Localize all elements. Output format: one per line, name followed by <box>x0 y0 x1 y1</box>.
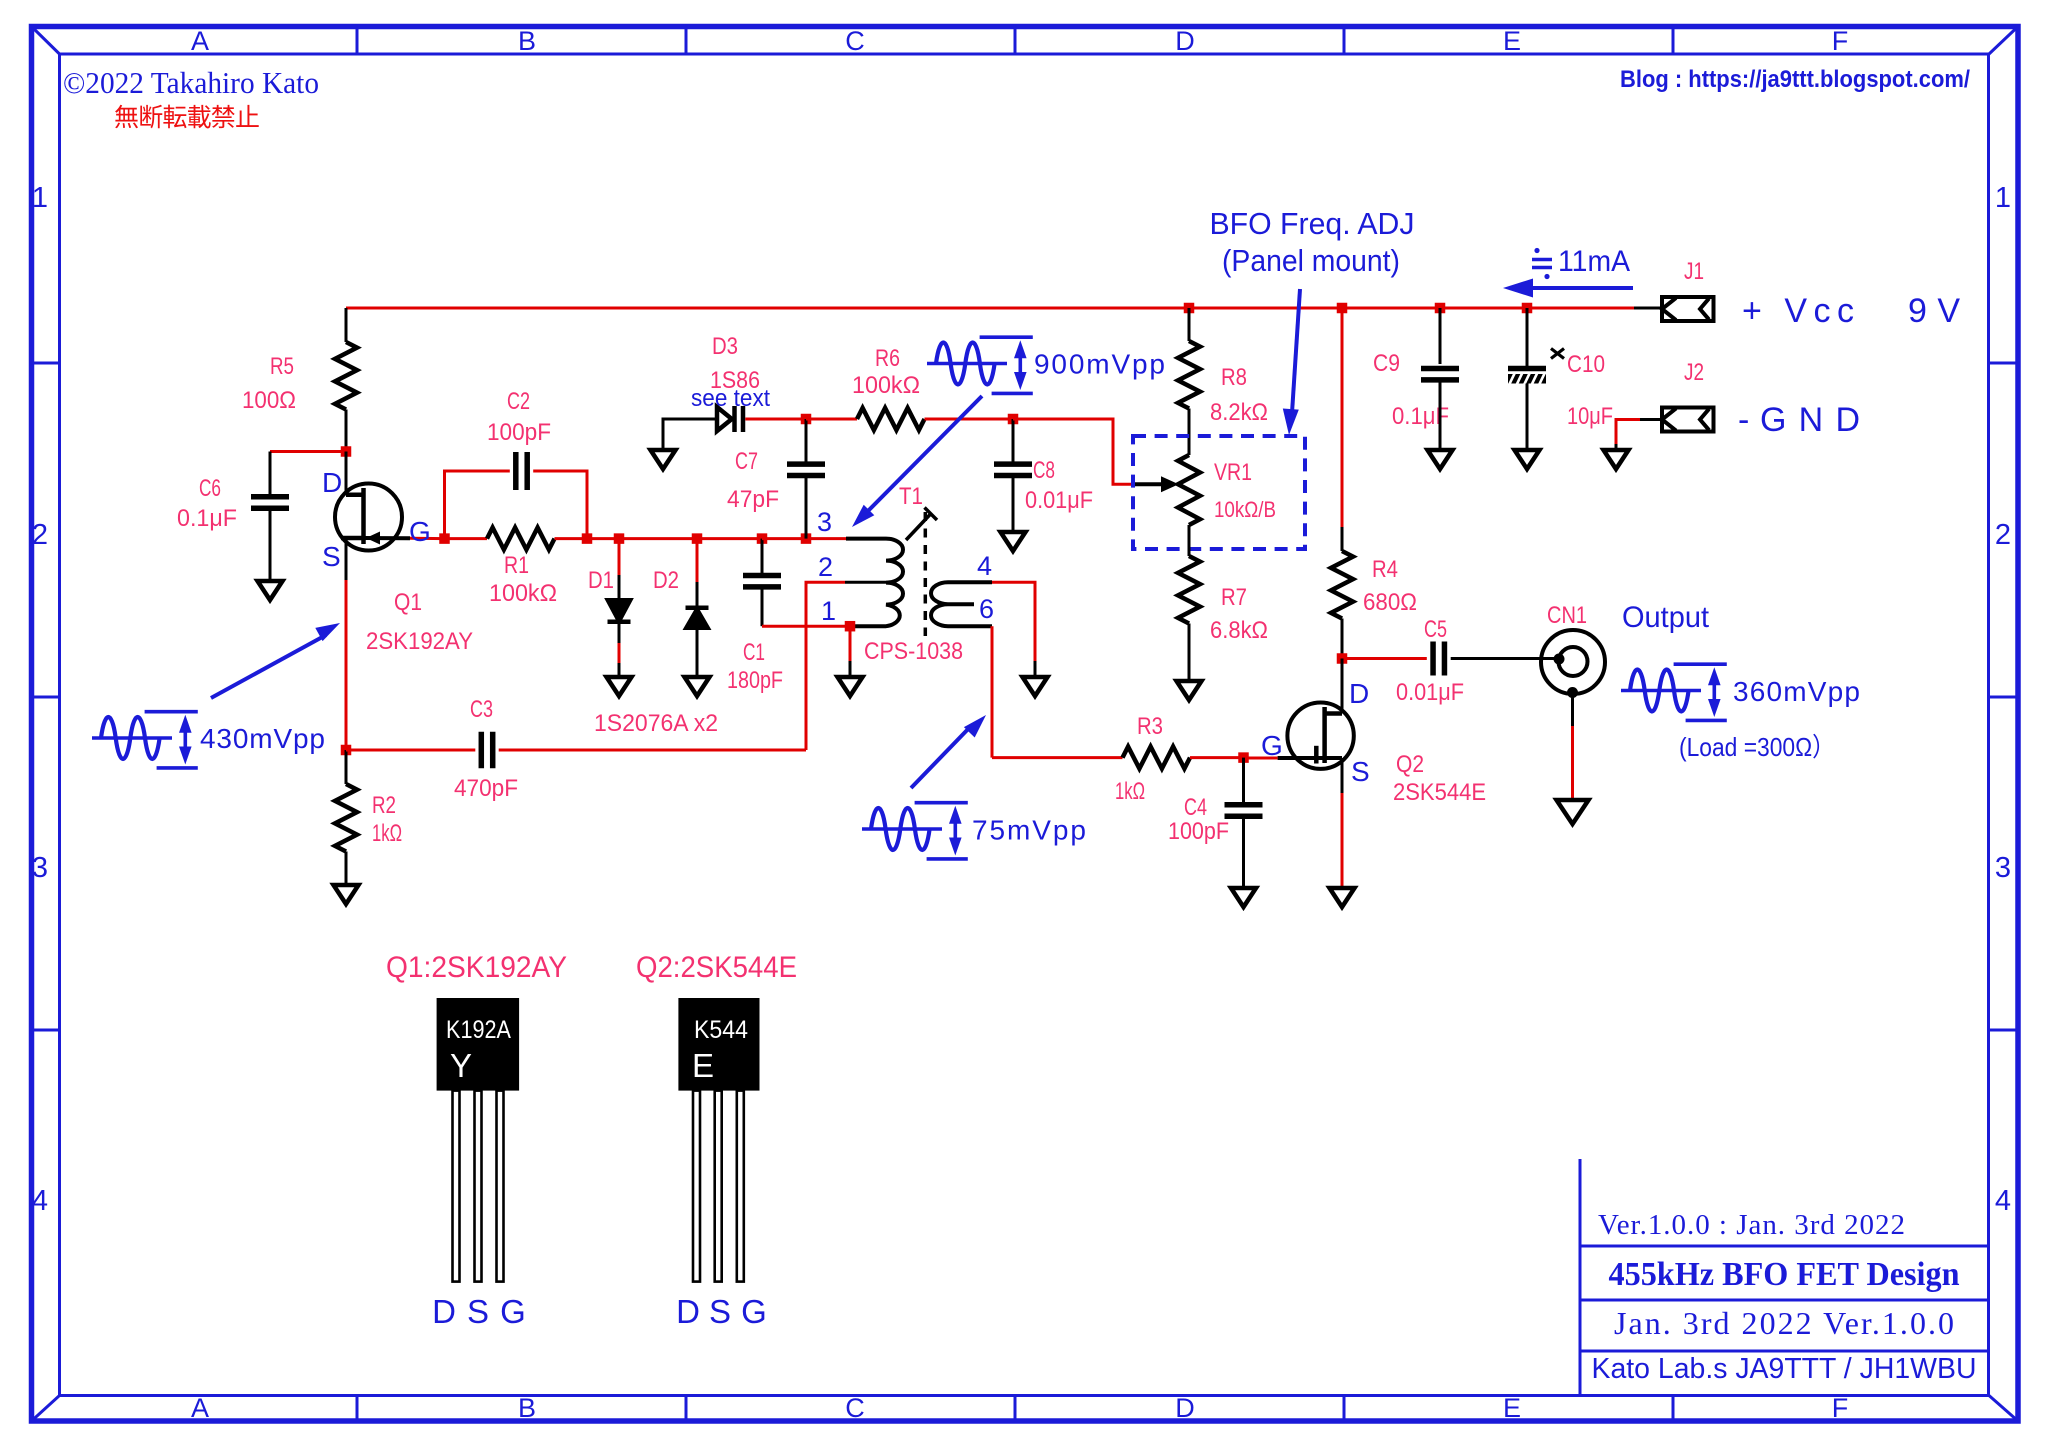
node Q1 source junction <box>341 745 352 756</box>
BFO ADJ arrow <box>1292 289 1300 413</box>
svg-text:47pF: 47pF <box>727 486 779 513</box>
svg-text:C4: C4 <box>1184 794 1207 821</box>
svg-text:4: 4 <box>1995 1185 2011 1217</box>
svg-text:B: B <box>518 26 536 56</box>
node R4 rail junction <box>1337 303 1348 314</box>
node C1 junction <box>757 533 768 544</box>
wire gate net D1-D2 <box>619 537 697 540</box>
svg-text:Y: Y <box>450 1047 472 1084</box>
svg-text:C6: C6 <box>199 475 221 502</box>
border column ticks <box>356 27 359 55</box>
wire T1 pin2 tap <box>845 581 886 584</box>
svg-text:D: D <box>322 467 342 498</box>
svg-text:S: S <box>467 1293 489 1330</box>
node Q1 drain junction <box>341 446 352 457</box>
svg-text:E: E <box>1503 26 1521 56</box>
border corner diagonals <box>32 27 60 55</box>
sine annotation 360mVpp <box>1621 689 1701 693</box>
svg-text:100kΩ: 100kΩ <box>852 372 920 399</box>
svg-text:10μF: 10μF <box>1567 403 1613 430</box>
transformer T1 secondary winding <box>931 582 992 626</box>
svg-text:G: G <box>500 1293 526 1330</box>
svg-text:8.2kΩ: 8.2kΩ <box>1210 399 1268 426</box>
svg-text:C9: C9 <box>1373 350 1400 377</box>
svg-text:Blog : https://ja9ttt.blogspot: Blog : https://ja9ttt.blogspot.com/ <box>1620 66 1970 93</box>
svg-text:D: D <box>432 1293 456 1330</box>
wire Q2 source to ground <box>1341 793 1344 888</box>
svg-text:1kΩ: 1kΩ <box>1115 778 1145 805</box>
wire node to C6 <box>270 450 346 453</box>
svg-text:(Panel mount): (Panel mount) <box>1222 243 1400 278</box>
ground D3 <box>651 450 676 469</box>
svg-text:2SK192AY: 2SK192AY <box>366 628 473 655</box>
svg-text:A: A <box>191 1393 209 1423</box>
wire gate net D2-C1 <box>697 537 762 540</box>
svg-text:0.1μF: 0.1μF <box>177 505 237 532</box>
wire D3 ground stub <box>663 419 717 450</box>
wire CN1 to ground <box>1571 693 1574 727</box>
sine annotation 75mVpp <box>862 827 942 831</box>
capacitor C2 <box>513 452 519 490</box>
svg-text:C2: C2 <box>507 388 530 415</box>
svg-text:1kΩ: 1kΩ <box>372 820 402 847</box>
wire C6 to ground <box>269 508 272 581</box>
capacitor C3 <box>479 732 485 769</box>
potentiometer VR1 wiper <box>1135 482 1162 486</box>
wire node to Q1 D <box>345 452 348 496</box>
resistor R6 <box>857 408 925 430</box>
wire Q2 source lead <box>1341 758 1344 793</box>
svg-text:G: G <box>741 1293 767 1330</box>
wire R7 to ground <box>1188 624 1191 682</box>
border row ticks <box>32 362 60 365</box>
svg-text:1: 1 <box>1995 182 2011 214</box>
wire C2 right riser <box>533 471 587 539</box>
svg-text:G: G <box>409 516 431 547</box>
capacitor C10 polarized <box>1508 366 1546 372</box>
svg-text:3: 3 <box>817 507 832 537</box>
svg-text:Kato Lab.s JA9TTT / JH1WBU: Kato Lab.s JA9TTT / JH1WBU <box>1592 1353 1977 1385</box>
wire C1 top lead <box>761 539 764 576</box>
transformer T1 trimmer <box>906 514 931 541</box>
svg-text:430mVpp: 430mVpp <box>200 723 325 754</box>
ground R7 <box>1177 681 1202 700</box>
wire gate net <box>445 537 488 540</box>
wire T1 pin6 to R3 <box>992 756 1123 759</box>
transistor package Q2 body <box>678 998 759 1091</box>
wire C9 to ground <box>1439 380 1442 450</box>
transistor Q2 2SK544E <box>1287 703 1353 769</box>
wire T1 pin1 to ground <box>849 626 852 661</box>
svg-text:75mVpp: 75mVpp <box>972 815 1086 846</box>
capacitor C5 <box>1430 642 1436 676</box>
svg-text:Jan. 3rd 2022 Ver.1.0.0: Jan. 3rd 2022 Ver.1.0.0 <box>1614 1305 1954 1341</box>
svg-text:G: G <box>1261 730 1283 761</box>
wire C10 to ground <box>1526 384 1529 451</box>
svg-text:Ver.1.0.0 : Jan. 3rd 2022: Ver.1.0.0 : Jan. 3rd 2022 <box>1598 1209 1905 1241</box>
svg-text:680Ω: 680Ω <box>1363 589 1417 616</box>
transformer T1 secondary tap stub <box>948 602 974 606</box>
wire D1 to ground <box>618 622 621 643</box>
svg-text:2: 2 <box>32 519 48 551</box>
node D1 junction <box>614 533 625 544</box>
svg-text:B: B <box>518 1393 536 1423</box>
svg-text:10kΩ/B: 10kΩ/B <box>1214 497 1276 522</box>
svg-text:100pF: 100pF <box>1168 818 1229 845</box>
svg-text:R3: R3 <box>1137 713 1163 740</box>
wire R3 to gate node <box>1190 756 1244 759</box>
Vcc rail wire <box>346 307 1634 310</box>
svg-text:1: 1 <box>821 596 836 626</box>
diode D3 1S86 <box>717 407 732 431</box>
wire T1 pin6 down <box>991 626 994 757</box>
title block left edge <box>1579 1159 1582 1396</box>
svg-text:470pF: 470pF <box>454 775 518 802</box>
svg-text:R6: R6 <box>875 345 900 372</box>
svg-text:J1: J1 <box>1684 258 1704 285</box>
node D2 junction <box>692 533 703 544</box>
wire C1 bottom <box>761 587 764 626</box>
ground D2 <box>685 677 710 696</box>
svg-text:Q2:2SK544E: Q2:2SK544E <box>636 951 797 984</box>
capacitor C8 <box>994 461 1032 467</box>
capacitor C7 <box>787 461 825 467</box>
wire J2 to ground <box>1616 420 1640 445</box>
node C7 top junction <box>801 414 812 425</box>
ground C4 <box>1231 888 1256 907</box>
ground C9 <box>1428 450 1453 469</box>
wire rail to C10 <box>1526 308 1529 366</box>
svg-text:C: C <box>845 1393 865 1423</box>
arrow to T1 pin6 wire <box>911 725 972 788</box>
arrow to T1 pin3 <box>866 396 982 513</box>
wire source to C3 <box>346 749 475 752</box>
svg-text:360mVpp: 360mVpp <box>1733 676 1860 707</box>
svg-text:F: F <box>1832 1393 1849 1423</box>
svg-text:6.8kΩ: 6.8kΩ <box>1210 617 1268 644</box>
ground J2 <box>1604 450 1629 469</box>
node Q2 drain junction <box>1337 653 1348 664</box>
connector J2 <box>1662 408 1714 432</box>
svg-text:K544: K544 <box>694 1016 748 1044</box>
wire Q1 source <box>345 580 348 750</box>
capacitor C4 <box>1225 802 1263 808</box>
ground C6 <box>258 581 283 600</box>
wire rail to R4 <box>1341 308 1344 527</box>
svg-text:VR1: VR1 <box>1214 459 1252 486</box>
wire R6 right <box>925 418 1014 421</box>
svg-text:D2: D2 <box>653 567 679 594</box>
wire T1 pin4 to ground <box>992 582 1035 661</box>
svg-text:+ Vcc: + Vcc <box>1742 292 1854 330</box>
wire J2 gnd stub <box>1615 444 1618 450</box>
resistor R8 <box>1178 341 1200 409</box>
node C10 rail junction <box>1522 303 1533 314</box>
svg-text:D: D <box>1175 1393 1195 1423</box>
sine annotation 900mVpp <box>927 362 1007 366</box>
wire R1 right <box>555 537 588 540</box>
connector J1 <box>1662 297 1714 321</box>
wire C5 to CN1 <box>1451 657 1556 660</box>
svg-text:11mA: 11mA <box>1558 245 1630 278</box>
wire Q1 gate <box>410 537 445 540</box>
resistor R7 <box>1178 556 1200 624</box>
svg-text:R7: R7 <box>1221 584 1247 611</box>
wire source to R2 <box>345 750 348 784</box>
svg-text:4: 4 <box>32 1185 48 1217</box>
wire Q2 drain net to C5 <box>1342 657 1427 660</box>
capacitor C9 <box>1421 366 1459 372</box>
svg-text:D3: D3 <box>712 333 738 360</box>
diode D1 <box>608 600 631 622</box>
wire R5 to node <box>345 410 348 452</box>
ground C8 <box>1001 532 1026 551</box>
svg-text:2: 2 <box>1995 519 2011 551</box>
wire R8 to VR1 <box>1188 409 1191 456</box>
svg-text:CPS-1038: CPS-1038 <box>864 638 963 665</box>
svg-text:F: F <box>1832 26 1849 56</box>
svg-text:無断転載禁止: 無断転載禁止 <box>114 104 260 132</box>
capacitor C1 <box>743 573 781 579</box>
wire C6 top lead <box>269 452 272 497</box>
svg-text:Q2: Q2 <box>1396 751 1424 778</box>
svg-text:D: D <box>1349 678 1369 709</box>
svg-text:R1: R1 <box>504 552 529 579</box>
svg-text:2: 2 <box>818 552 833 582</box>
capacitor C6 <box>251 494 289 500</box>
package Q1 pins <box>453 1091 460 1282</box>
svg-text:K192A: K192A <box>446 1016 511 1044</box>
svg-text:Output: Output <box>1622 601 1710 634</box>
package Q2 pins <box>693 1091 700 1282</box>
connector CN1 <box>1541 630 1605 694</box>
wire pin3 to T1 <box>806 537 848 540</box>
svg-text:T1: T1 <box>899 483 923 510</box>
svg-text:C1: C1 <box>743 639 765 666</box>
wire R2 to ground <box>345 852 348 886</box>
ground Q2 source <box>1330 888 1355 907</box>
wire Q2 drain lead <box>1341 659 1344 714</box>
potentiometer VR1 dashed box <box>1133 436 1305 549</box>
transistor Q1 2SK192AY <box>335 484 402 551</box>
svg-text:100kΩ: 100kΩ <box>489 580 557 607</box>
svg-text:C8: C8 <box>1033 457 1055 484</box>
C10 plus mark <box>1551 349 1564 359</box>
ground CN1 <box>1557 800 1589 824</box>
svg-text:J2: J2 <box>1684 359 1704 386</box>
node R8 top junction <box>1184 303 1195 314</box>
wire C4 to ground <box>1242 816 1245 888</box>
ground T1 pin4 <box>1023 677 1048 696</box>
11mA current arrow <box>1533 286 1633 290</box>
resistor R3 <box>1123 747 1191 769</box>
potentiometer VR1 body <box>1178 455 1200 525</box>
svg-text:1: 1 <box>32 182 48 214</box>
svg-text:R4: R4 <box>1372 556 1398 583</box>
node T1 pin3 junction <box>801 533 812 544</box>
svg-text:3: 3 <box>1995 852 2011 884</box>
svg-text:S: S <box>1351 756 1370 787</box>
svg-text:C: C <box>845 26 865 56</box>
svg-text:0.01μF: 0.01μF <box>1025 487 1093 514</box>
svg-text:Q1:2SK192AY: Q1:2SK192AY <box>386 951 567 984</box>
svg-text:R2: R2 <box>372 792 396 819</box>
node T1 pin1 junction <box>845 621 856 632</box>
svg-text:R5: R5 <box>270 353 294 380</box>
svg-text:C5: C5 <box>1424 616 1447 643</box>
wire rail to C9 <box>1439 308 1442 364</box>
svg-text:D1: D1 <box>588 567 614 594</box>
transformer T1 primary winding <box>846 539 903 627</box>
ground R2 <box>334 885 359 904</box>
svg-text:BFO Freq. ADJ: BFO Freq. ADJ <box>1210 206 1415 241</box>
wire D1 lead <box>618 539 621 575</box>
svg-text:4: 4 <box>977 551 992 581</box>
svg-text:0.01μF: 0.01μF <box>1396 679 1464 706</box>
svg-text:S: S <box>709 1293 731 1330</box>
svg-text:100Ω: 100Ω <box>242 387 296 414</box>
wire VR1 to R7 <box>1188 525 1191 556</box>
svg-text:-: - <box>1738 401 1749 439</box>
diode D2 <box>686 606 709 611</box>
wire rail to R8 <box>1188 308 1191 341</box>
node C9 rail junction <box>1435 303 1446 314</box>
arrow to Q1 source <box>211 635 326 698</box>
svg-text:6: 6 <box>979 594 994 624</box>
wire rail to R5 <box>345 308 348 342</box>
svg-text:S: S <box>322 541 341 572</box>
svg-text:100pF: 100pF <box>487 419 551 446</box>
svg-text:900mVpp: 900mVpp <box>1034 349 1165 380</box>
svg-text:Q1: Q1 <box>394 589 422 616</box>
wire C8 to ground <box>1012 476 1015 533</box>
ground T1 pin1 <box>838 677 863 696</box>
svg-text:E: E <box>1503 1393 1521 1423</box>
wire gate net C1-T1 <box>762 537 806 540</box>
svg-text:©2022 Takahiro Kato: ©2022 Takahiro Kato <box>63 65 319 100</box>
node C8 junction <box>1008 414 1019 425</box>
wire C8 top lead <box>1012 419 1015 464</box>
wire gate net to D1 <box>587 537 619 540</box>
J1 lead wire <box>1634 307 1662 310</box>
svg-text:3: 3 <box>32 852 48 884</box>
wire R4 to node <box>1341 619 1344 659</box>
svg-text:D: D <box>1175 26 1195 56</box>
wire D2 to ground <box>696 628 699 677</box>
wire D3 right lead <box>745 418 806 421</box>
wire Q1 source lead <box>345 538 348 580</box>
title block row lines <box>1580 1245 1989 1248</box>
wire J2 lead <box>1640 418 1662 421</box>
wire C3 to T1 pin2 <box>499 749 806 752</box>
transistor package Q1 body <box>437 998 519 1091</box>
svg-text:A: A <box>191 26 209 56</box>
resistor R1 <box>487 528 555 550</box>
wire C7 top lead <box>805 419 808 464</box>
wire C4 top lead <box>1242 758 1245 805</box>
svg-text:C7: C7 <box>735 448 758 475</box>
svg-text:C10: C10 <box>1567 351 1605 378</box>
svg-text:C3: C3 <box>470 696 493 723</box>
node Q1 gate junction <box>439 533 450 544</box>
svg-text:E: E <box>692 1047 714 1084</box>
svg-text:R8: R8 <box>1221 364 1247 391</box>
wire C7 bottom lead <box>805 476 808 539</box>
svg-text:1S2076A x2: 1S2076A x2 <box>594 710 718 737</box>
resistor R4 <box>1331 551 1353 619</box>
sine annotation 430mVpp <box>92 736 172 740</box>
transformer T1 core dashed line <box>924 512 928 636</box>
svg-text:see text: see text <box>691 385 770 412</box>
svg-text:9V: 9V <box>1908 292 1960 330</box>
svg-text:(Load =300Ω）: (Load =300Ω） <box>1679 732 1835 762</box>
svg-text:180pF: 180pF <box>727 667 783 694</box>
wire gate node to Q2 <box>1244 757 1278 760</box>
wire D3 net to R6 <box>806 418 857 421</box>
svg-text:2SK544E: 2SK544E <box>1393 779 1486 806</box>
resistor R5 <box>335 342 357 410</box>
approx-equal symbol <box>1532 258 1552 262</box>
node R1 right junction <box>582 533 593 544</box>
resistor R2 <box>335 784 357 852</box>
wire net to VR1 wiper <box>1013 419 1135 484</box>
node Q2 gate junction <box>1238 752 1249 763</box>
ground C10 <box>1515 450 1540 469</box>
svg-text:D: D <box>676 1293 700 1330</box>
svg-text:GND: GND <box>1760 401 1860 439</box>
ground D1 <box>607 677 632 696</box>
wire D2 lead <box>696 539 699 582</box>
svg-text:CN1: CN1 <box>1547 602 1587 629</box>
wire C2 left riser <box>445 471 510 539</box>
svg-text:455kHz BFO FET Design: 455kHz BFO FET Design <box>1609 1256 1960 1293</box>
